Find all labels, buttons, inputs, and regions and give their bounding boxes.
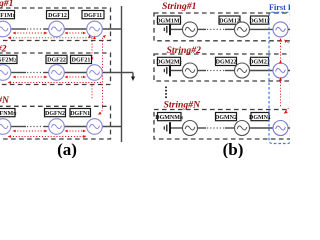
- red diagnosis long line row2: [8, 81, 103, 84]
- ground symbol rowN: [164, 122, 170, 134]
- module box DGFN1: [70, 109, 91, 117]
- svg-text:DGFN2: DGFN2: [45, 111, 65, 117]
- wire to c2 row2: [44, 72, 49, 74]
- red diagnosis long line row1: [8, 36, 93, 39]
- red vertical diagnosis link rows1-2 (b): [279, 38, 282, 64]
- module box DGFNMN (cropped): [0, 109, 17, 117]
- red vertical link row1-row2 right: [98, 35, 106, 115]
- module box DGF1M1 (cropped): [0, 11, 16, 19]
- wire c2-c3 row1 (b): [250, 28, 274, 30]
- dotted continuation row1: [27, 28, 44, 30]
- AC source circle c3 row2: [87, 65, 103, 81]
- module box DGM22: [216, 57, 237, 65]
- AC source circle c2 row2: [49, 65, 65, 81]
- dotted continuation row1 (b): [207, 28, 225, 30]
- bus line panel a: [121, 6, 123, 142]
- module box DGMN1: [249, 113, 271, 121]
- svg-text:DGF12: DGF12: [48, 13, 67, 19]
- module box DGFN2: [45, 109, 66, 117]
- wire ground-c1 row2 (b): [171, 70, 183, 72]
- wire c3-edge row2 (b): [288, 70, 290, 72]
- module box DGF21: [71, 55, 92, 63]
- wire c3 to tap arrow row2: [102, 72, 133, 74]
- wire dots-c2 row1 (b): [225, 28, 235, 30]
- wire c2-c3 row2: [64, 72, 86, 74]
- wire c1-c2 row1: [11, 28, 26, 30]
- wire c1-dots row1 (b): [198, 28, 207, 30]
- svg-text:DGMN2: DGMN2: [215, 115, 237, 121]
- svg-text:(b): (b): [223, 140, 244, 158]
- module box DGMNMN: [155, 113, 184, 121]
- AC source circle c1 row2 (b): [183, 63, 198, 78]
- string #1 dashed box (panel a): [0, 8, 111, 41]
- red comm link c1-c2 row3: [13, 130, 48, 133]
- wire c1-c2 row2: [11, 72, 26, 74]
- ground symbol row1: [164, 24, 170, 36]
- output arrow panel a: [131, 73, 135, 82]
- AC source circle c1 row1 (b): [183, 22, 198, 37]
- svg-text:DGF21: DGF21: [72, 58, 91, 64]
- svg-text:DGF11: DGF11: [84, 13, 102, 19]
- AC source circle c2 row2 (b): [235, 63, 250, 78]
- module box DGM21: [249, 57, 270, 65]
- wire c2-c3 rowN (b): [250, 127, 274, 129]
- dotted continuation row3: [27, 126, 44, 128]
- svg-text:DGM1M1: DGM1M1: [156, 18, 182, 24]
- PANEL A: [0, 0, 135, 159]
- module box DGF22: [46, 55, 67, 63]
- svg-text:String#1: String#1: [162, 1, 196, 12]
- wire c3-bus row1: [102, 28, 121, 30]
- svg-text:DGM21: DGM21: [249, 60, 270, 66]
- string #1 dashed box (panel b): [154, 13, 292, 41]
- red comm link c1-c2 row2: [13, 76, 48, 79]
- AC source circle c1 row3 (cropped): [0, 119, 11, 135]
- red vertical link row1-row2 left: [91, 38, 94, 61]
- wire c3-edge rowN (b): [288, 127, 290, 129]
- wire to c2 row1: [44, 28, 49, 30]
- wire ground-c1 row1 (b): [171, 28, 183, 30]
- red vertical diagnosis link rows2-3 (b): [279, 77, 282, 107]
- wire c1-c2 row3: [11, 126, 26, 128]
- svg-text:DGM11: DGM11: [249, 18, 269, 24]
- module box DGF12: [47, 11, 69, 19]
- wire c1-dots row2 (b): [198, 70, 207, 72]
- svg-text:DGMNMN: DGMNMN: [155, 115, 184, 121]
- wire dots-c2 rowN (b): [225, 127, 235, 129]
- wire c3-edge row1 (b): [288, 28, 290, 30]
- wire c2-c3 row3: [64, 126, 86, 128]
- AC source circle c3 row3: [87, 119, 103, 135]
- wire c2-c3 row2 (b): [250, 70, 274, 72]
- wire ground-c1 rowN (b): [171, 127, 183, 129]
- red diagnosis long line row3: [8, 135, 87, 138]
- vertical ellipsis (b): [165, 86, 167, 98]
- wire to c2 row3: [44, 126, 49, 128]
- module box DGM2M2: [156, 57, 182, 65]
- first diagnosis blue dashed box: [269, 12, 291, 143]
- svg-text:String#N: String#N: [164, 99, 202, 110]
- dotted continuation row2 (b): [207, 70, 225, 72]
- ground symbol row2: [164, 65, 170, 77]
- svg-text:String#N: String#N: [0, 95, 10, 106]
- module box DGF11: [82, 11, 104, 19]
- svg-text:DGM22: DGM22: [216, 60, 237, 66]
- AC source circle c2 rowN (b): [235, 121, 250, 136]
- svg-text:First Diag: First Diag: [269, 3, 290, 12]
- red comm link c2-c3 row2: [65, 76, 87, 79]
- wire c3-bus row3: [102, 126, 121, 128]
- PANEL B: [154, 1, 305, 159]
- red diagonal arrow row1 (b): [284, 40, 288, 44]
- svg-text:String#2: String#2: [0, 43, 7, 54]
- wire c1-dots rowN (b): [198, 127, 207, 129]
- AC source circle c3 rowN (b) blue: [273, 121, 288, 136]
- AC source circle c1 row2 (cropped): [0, 65, 11, 81]
- red comm link c2-c3 row1: [65, 32, 87, 35]
- module box DGM1M1: [156, 16, 182, 24]
- string #N dashed box (panel a): [0, 106, 111, 139]
- module box DGMN2: [215, 113, 237, 121]
- svg-text:DGF22: DGF22: [47, 58, 66, 64]
- svg-text:DGFN1: DGFN1: [70, 111, 90, 117]
- red arrows under c3 row1: [88, 35, 96, 40]
- string #2 dashed box (panel a): [0, 53, 111, 85]
- AC source circle c2 row3: [49, 119, 65, 135]
- module box DGM11: [249, 16, 269, 24]
- red elbow into rowN circle (b): [284, 108, 289, 114]
- AC source circle c3 row1 (b) blue: [273, 22, 288, 37]
- svg-text:String#1: String#1: [0, 0, 14, 9]
- dotted continuation rowN (b): [207, 127, 225, 129]
- dotted continuation row2: [27, 72, 44, 74]
- string #N dashed box (panel b): [154, 110, 292, 140]
- AC source circle c1 rowN (b): [183, 121, 198, 136]
- string #2 dashed box (panel b): [154, 54, 292, 81]
- red vertical link row2-row3 left: [91, 86, 93, 99]
- AC source circle c3 row2 (b) blue: [273, 63, 288, 78]
- svg-text:DGMN1: DGMN1: [249, 115, 271, 121]
- svg-text:String#2: String#2: [167, 45, 202, 56]
- red comm link c1-c2 row1: [13, 32, 48, 35]
- module box DGM12: [219, 16, 240, 24]
- AC source circle c3 row1: [87, 21, 103, 37]
- AC source circle c2 row1 (b): [235, 22, 250, 37]
- AC source circle c1 row1 (cropped): [0, 21, 11, 37]
- red comm link c2-c3 row3: [65, 130, 87, 133]
- svg-text:(a): (a): [57, 140, 77, 158]
- module box DGF2M2 (cropped): [0, 55, 17, 63]
- wire c2-c3 row1: [64, 28, 86, 30]
- AC source circle c2 row1: [49, 21, 65, 37]
- wire dots-c2 row2 (b): [225, 70, 235, 72]
